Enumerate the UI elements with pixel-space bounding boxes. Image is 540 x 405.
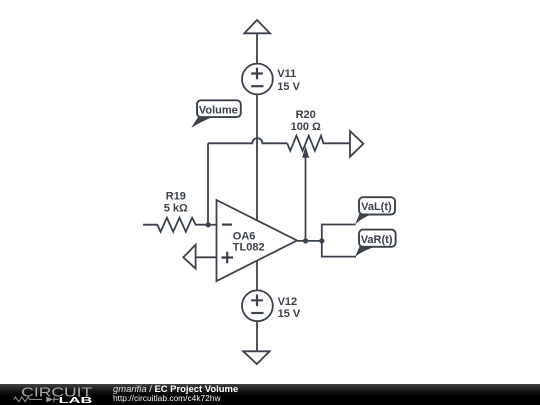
svg-text:V11: V11	[277, 68, 296, 80]
label R20 100 ohm	[291, 109, 321, 133]
wire feedback vertical (corner to inverting node)	[207, 143, 209, 224]
footer url text	[113, 394, 221, 403]
resistor R19	[143, 218, 208, 232]
CircuitLab logo	[0, 384, 110, 405]
svg-text:15 V: 15 V	[277, 81, 300, 93]
node junction wiper-output	[303, 238, 308, 243]
label V11 15 V	[277, 68, 300, 93]
net flag right (output port triangle)	[350, 131, 363, 157]
footer title text	[113, 385, 238, 395]
svg-text:R20: R20	[296, 109, 316, 121]
svg-text:OA6: OA6	[233, 230, 256, 242]
wire output to VaR flag	[322, 241, 356, 257]
op-amp OA6	[217, 200, 298, 281]
svg-text:VaL(t): VaL(t)	[361, 201, 392, 213]
wire ground flag to op-amp non-inverting input	[196, 256, 217, 258]
wire V+ flag stem to V11 top	[256, 33, 258, 64]
node junction output split	[319, 238, 324, 243]
voltage source V12	[242, 290, 273, 321]
svg-text:R19: R19	[166, 190, 186, 202]
net flag V+ (up triangle)	[244, 20, 270, 33]
svg-text:TL082: TL082	[233, 242, 265, 254]
wire output to VaL flag	[322, 225, 356, 241]
node flag Volume	[191, 100, 241, 128]
svg-text:5 kΩ: 5 kΩ	[164, 202, 188, 214]
potentiometer R20	[287, 136, 350, 158]
label V12 15 V	[278, 296, 301, 320]
node flag VaL(t)	[355, 197, 395, 224]
voltage source V11	[242, 64, 273, 95]
svg-text:100 Ω: 100 Ω	[291, 121, 321, 133]
ground flag bottom (down triangle)	[243, 351, 269, 364]
wire V12 bottom to ground flag	[256, 321, 258, 351]
label OA6 TL082	[233, 230, 265, 253]
wire V11 bottom to op-amp V+ pin	[256, 94, 258, 220]
label R19 5 kohm	[164, 190, 188, 214]
svg-text:Volume: Volume	[199, 105, 238, 117]
wire op-amp output	[297, 240, 322, 242]
footer bar	[0, 384, 540, 405]
wire feedback horizontal with hop over supply wire	[208, 138, 287, 143]
svg-text:VaR(t): VaR(t)	[361, 234, 393, 246]
wire R20 wiper to output node	[305, 156, 307, 241]
ground flag at non-inverting input	[183, 245, 195, 269]
wire junction to op-amp inverting input	[208, 224, 217, 226]
node flag VaR(t)	[355, 230, 395, 257]
svg-text:V12: V12	[278, 296, 298, 308]
node junction inverting input	[206, 222, 211, 227]
wire op-amp V- pin to V12	[256, 261, 258, 292]
svg-text:15 V: 15 V	[278, 308, 301, 320]
svg-text:LAB: LAB	[59, 395, 93, 405]
